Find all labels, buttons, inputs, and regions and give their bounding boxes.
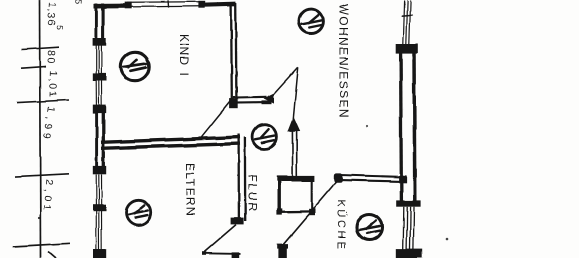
kueche top wall (double) <box>340 175 402 177</box>
svg-text:80: 80 <box>44 50 57 65</box>
svg-text:5: 5 <box>55 25 65 31</box>
shaft box bottom edge <box>278 210 314 213</box>
shaft box bottom-left blob <box>277 208 282 214</box>
entrance vertical line <box>293 67 298 119</box>
eltern door swing diagonal (upper) <box>202 98 234 137</box>
room symbol circle FLUR <box>252 124 277 149</box>
svg-text:1,01: 1,01 <box>46 70 59 100</box>
dimension tick y=67 <box>21 66 46 68</box>
kueche door post (bottom) <box>278 244 286 258</box>
top wall window mid tick <box>167 0 170 7</box>
symbol rotated 4 KIND I <box>124 60 146 71</box>
top wall window lines <box>127 1 202 4</box>
top wall window cap right <box>198 1 205 8</box>
dimension tick y=175 <box>15 174 69 177</box>
left wall bottom cap <box>93 249 106 258</box>
kueche top wall left end cap blob <box>334 173 343 182</box>
entrance arrowhead pointing left <box>263 93 274 103</box>
room symbol circle ELTERN <box>126 200 151 225</box>
svg-text:5: 5 <box>73 0 83 4</box>
left wall window cap 5 <box>93 204 106 211</box>
KIND I right wall (double) <box>230 3 233 100</box>
right wall window top tick <box>401 15 413 16</box>
right wall window bottom hatch <box>403 207 414 249</box>
symbol rotated 4 ELTERN <box>128 205 148 218</box>
kueche top wall right junction bar <box>399 175 407 182</box>
right wall bottom cap <box>396 249 422 258</box>
dimension end slash bottom <box>49 252 57 258</box>
shaft box bottom-right blob <box>309 209 315 215</box>
right wall (double) <box>399 53 403 202</box>
stray speck upper <box>366 125 368 127</box>
top wall right thick segment <box>203 4 236 5</box>
room symbol circle KIND I <box>121 52 149 80</box>
window KIND I upper hatch <box>96 46 101 74</box>
left wall window cap 2 <box>93 73 106 81</box>
stray dot dimension comma <box>38 217 40 219</box>
dimension tick y=101 <box>17 100 69 103</box>
shaft box left edge <box>278 176 281 214</box>
entrance arrowhead pointing up <box>288 117 300 132</box>
top wall left thick segment <box>94 4 128 9</box>
stub wall end bar <box>261 100 271 104</box>
bottom wall left end blob <box>202 251 206 255</box>
svg-text:FLUR: FLUR <box>246 175 260 214</box>
window KIND I lower hatch <box>96 81 102 106</box>
window ELTERN lower hatch <box>96 211 102 250</box>
window ELTERN upper hatch <box>96 175 102 205</box>
kueche door leaf diagonal <box>283 181 338 245</box>
shaft box right edge <box>311 181 313 212</box>
symbol rotated 4 WOHNEN <box>302 15 322 28</box>
kueche door post head <box>277 244 288 249</box>
dimension tick y=245 <box>13 243 70 246</box>
svg-text:ELTERN: ELTERN <box>183 163 197 217</box>
left wall window cap 1 <box>93 38 107 46</box>
FLUR north stub wall (double) <box>233 96 266 99</box>
room symbol circle WOHNEN <box>299 9 323 33</box>
svg-text:I: I <box>177 73 191 76</box>
eltern right wall (double) <box>237 134 240 221</box>
right wall window top cap <box>396 44 418 54</box>
svg-text:WOHNEN/ESSEN: WOHNEN/ESSEN <box>337 4 351 119</box>
dimension line (vertical measuring line at left) <box>40 0 41 258</box>
svg-text:KIND: KIND <box>177 34 191 66</box>
shaft box top edge <box>277 176 315 182</box>
left outer wall: upper double-line segment (KIND I) <box>95 4 98 41</box>
dimension tick y=48 <box>22 47 59 49</box>
svg-text:1,36: 1,36 <box>45 2 58 27</box>
stray dot right <box>446 237 449 240</box>
stub wall foot block at KIND wall <box>230 99 239 109</box>
bottom wall line fragment <box>204 252 241 255</box>
right wall mid cap <box>396 200 420 206</box>
shaft neck double line <box>291 129 293 177</box>
left wall window cap 4 <box>93 166 106 174</box>
eltern door leaf diagonal (lower) <box>204 225 236 253</box>
symbol rotated 4 KUECHE <box>359 220 380 233</box>
eltern top wall (double) <box>101 137 240 142</box>
entrance diagonal line <box>272 67 299 97</box>
symbol rotated 4 FLUR <box>255 129 275 143</box>
eltern door post bottom <box>232 252 240 258</box>
eltern right wall bottom cap <box>231 218 244 225</box>
room symbol circle KUECHE <box>357 214 383 240</box>
svg-text:KÜCHE: KÜCHE <box>335 200 347 252</box>
left wall middle double-line segment <box>95 112 98 169</box>
left wall window cap 3 <box>93 105 106 114</box>
top wall window cap left <box>125 2 132 9</box>
right wall window top hatch <box>403 0 410 45</box>
